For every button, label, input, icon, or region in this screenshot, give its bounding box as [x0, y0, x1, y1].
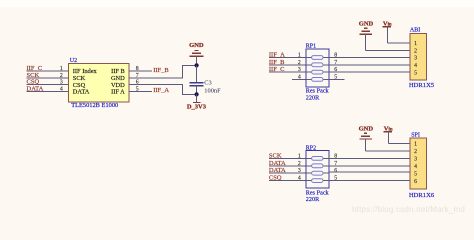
svg-text:IIF_A: IIF_A	[153, 87, 169, 94]
svg-text:1: 1	[414, 41, 417, 47]
svg-text:4: 4	[60, 86, 63, 92]
svg-text:4: 4	[414, 63, 417, 69]
wire RP2 pin6 to SPI pin5	[329, 171, 410, 173]
wire Vin to ABI pin1	[387, 42, 410, 44]
svg-text:3: 3	[414, 56, 417, 62]
svg-text:D_3V3: D_3V3	[187, 104, 207, 111]
resistor pack RP2	[306, 151, 329, 189]
svg-text:1: 1	[298, 153, 301, 159]
power port Vin (ABI)	[383, 20, 392, 43]
svg-text:GND: GND	[189, 42, 204, 49]
wire RP1 pin5 stub	[329, 78, 344, 80]
wire pin2 RP2	[269, 165, 306, 167]
svg-text:5: 5	[414, 171, 417, 177]
wire pin1 RP1	[269, 57, 306, 59]
svg-text:1: 1	[298, 53, 301, 59]
svg-text:220R: 220R	[306, 94, 320, 101]
capacitor C3	[190, 65, 204, 94]
junction bottom of C3	[195, 92, 199, 96]
svg-text:4: 4	[414, 164, 417, 170]
wire GND to ABI pin2	[366, 49, 410, 51]
svg-text:1: 1	[60, 66, 63, 72]
svg-text:SPI: SPI	[411, 132, 420, 138]
svg-text:DATA: DATA	[27, 85, 44, 92]
wire pin3 RP2	[269, 172, 306, 174]
svg-text:2: 2	[298, 60, 301, 66]
power port GND (ABI)	[359, 20, 374, 50]
svg-text:2: 2	[298, 161, 301, 167]
svg-text:6: 6	[334, 168, 337, 174]
svg-text:C3: C3	[204, 79, 211, 86]
connector ABI HDR1X5	[410, 34, 427, 80]
svg-text:220R: 220R	[306, 196, 320, 203]
svg-text:6: 6	[414, 179, 417, 185]
svg-text:GND: GND	[359, 125, 374, 132]
svg-text:CSQ: CSQ	[269, 175, 282, 182]
wire pin4 RP1 stub	[292, 78, 306, 80]
svg-text:2: 2	[414, 149, 417, 155]
svg-text:https://blog.csdn.net/Mark_md: https://blog.csdn.net/Mark_md	[352, 205, 465, 214]
svg-text:HDR1X6: HDR1X6	[409, 192, 435, 199]
svg-text:HDR1X5: HDR1X5	[409, 82, 435, 89]
pin numbers RP2 left	[298, 153, 301, 181]
wire RP1 pin7 to ABI pin4	[329, 64, 410, 66]
svg-text:4: 4	[298, 74, 301, 80]
power port GND (SPI)	[359, 125, 374, 151]
svg-text:2: 2	[414, 49, 417, 55]
svg-text:2: 2	[60, 73, 63, 79]
pin numbers RP1 right	[334, 53, 337, 81]
wire pin4 U2 left	[27, 90, 69, 92]
svg-text:DATA: DATA	[269, 160, 286, 167]
power port GND above C3	[189, 42, 204, 66]
power port Vin (SPI)	[384, 125, 393, 143]
wire pin3 RP1	[269, 71, 306, 73]
wire Vin to SPI pin1	[388, 143, 410, 145]
wire pin8 U2 stub	[129, 70, 152, 72]
svg-text:GND: GND	[359, 20, 374, 27]
wire RP2 pin8 to SPI pin3	[329, 157, 410, 159]
wire pin2 RP1	[269, 64, 306, 66]
wire RP2 pin5 to SPI pin6	[329, 180, 410, 182]
svg-text:100nF: 100nF	[204, 88, 221, 95]
svg-text:SCK: SCK	[269, 152, 282, 159]
wire pin3 U2 left	[27, 84, 69, 86]
power port D_3V3	[187, 94, 207, 110]
svg-text:IIF_A: IIF_A	[269, 52, 285, 59]
svg-text:3: 3	[414, 157, 417, 163]
wire RP2 pin7 to SPI pin4	[329, 165, 410, 167]
pin numbers RP1 left	[298, 53, 301, 81]
svg-text:DATA: DATA	[73, 89, 90, 96]
svg-text:RP1: RP1	[306, 44, 316, 50]
wire pin2 U2 left	[27, 77, 69, 79]
wire pin1 U2 left	[27, 70, 69, 72]
wire GND to SPI pin2	[366, 150, 410, 152]
svg-text:IIF_B: IIF_B	[153, 67, 169, 74]
svg-text:IIF A: IIF A	[111, 89, 125, 96]
svg-text:IIF_B: IIF_B	[269, 59, 285, 66]
svg-text:3: 3	[298, 168, 301, 174]
wire RP1 pin6 to ABI pin5	[329, 71, 410, 73]
svg-text:4: 4	[298, 176, 301, 182]
IC U2 body	[69, 64, 129, 102]
resistor pack RP1	[306, 49, 329, 87]
svg-text:RP2: RP2	[306, 145, 316, 151]
svg-text:U2: U2	[70, 58, 77, 64]
wire pin4 RP2	[269, 180, 306, 182]
wire RP1 pin8 to ABI pin3	[329, 57, 410, 59]
wire pin5 U2 stub	[129, 90, 152, 92]
svg-text:Res Pack: Res Pack	[306, 87, 330, 94]
junction top of C3	[195, 63, 199, 67]
wire pin7 GND to cap top	[129, 65, 197, 77]
svg-text:3: 3	[298, 67, 301, 73]
svg-text:3: 3	[60, 80, 63, 86]
wire pin1 RP2	[269, 157, 306, 159]
svg-text:1: 1	[414, 142, 417, 148]
connector SPI HDR1X6	[410, 138, 427, 189]
svg-text:ABI: ABI	[410, 27, 420, 33]
pin numbers RP2 right	[334, 153, 337, 181]
wire pin6 VDD to cap bottom	[129, 85, 197, 95]
svg-text:IIF_C: IIF_C	[269, 66, 285, 73]
svg-text:5: 5	[414, 70, 417, 76]
svg-text:TLE5012B E1000: TLE5012B E1000	[71, 102, 118, 109]
svg-text:DATA: DATA	[269, 167, 286, 174]
